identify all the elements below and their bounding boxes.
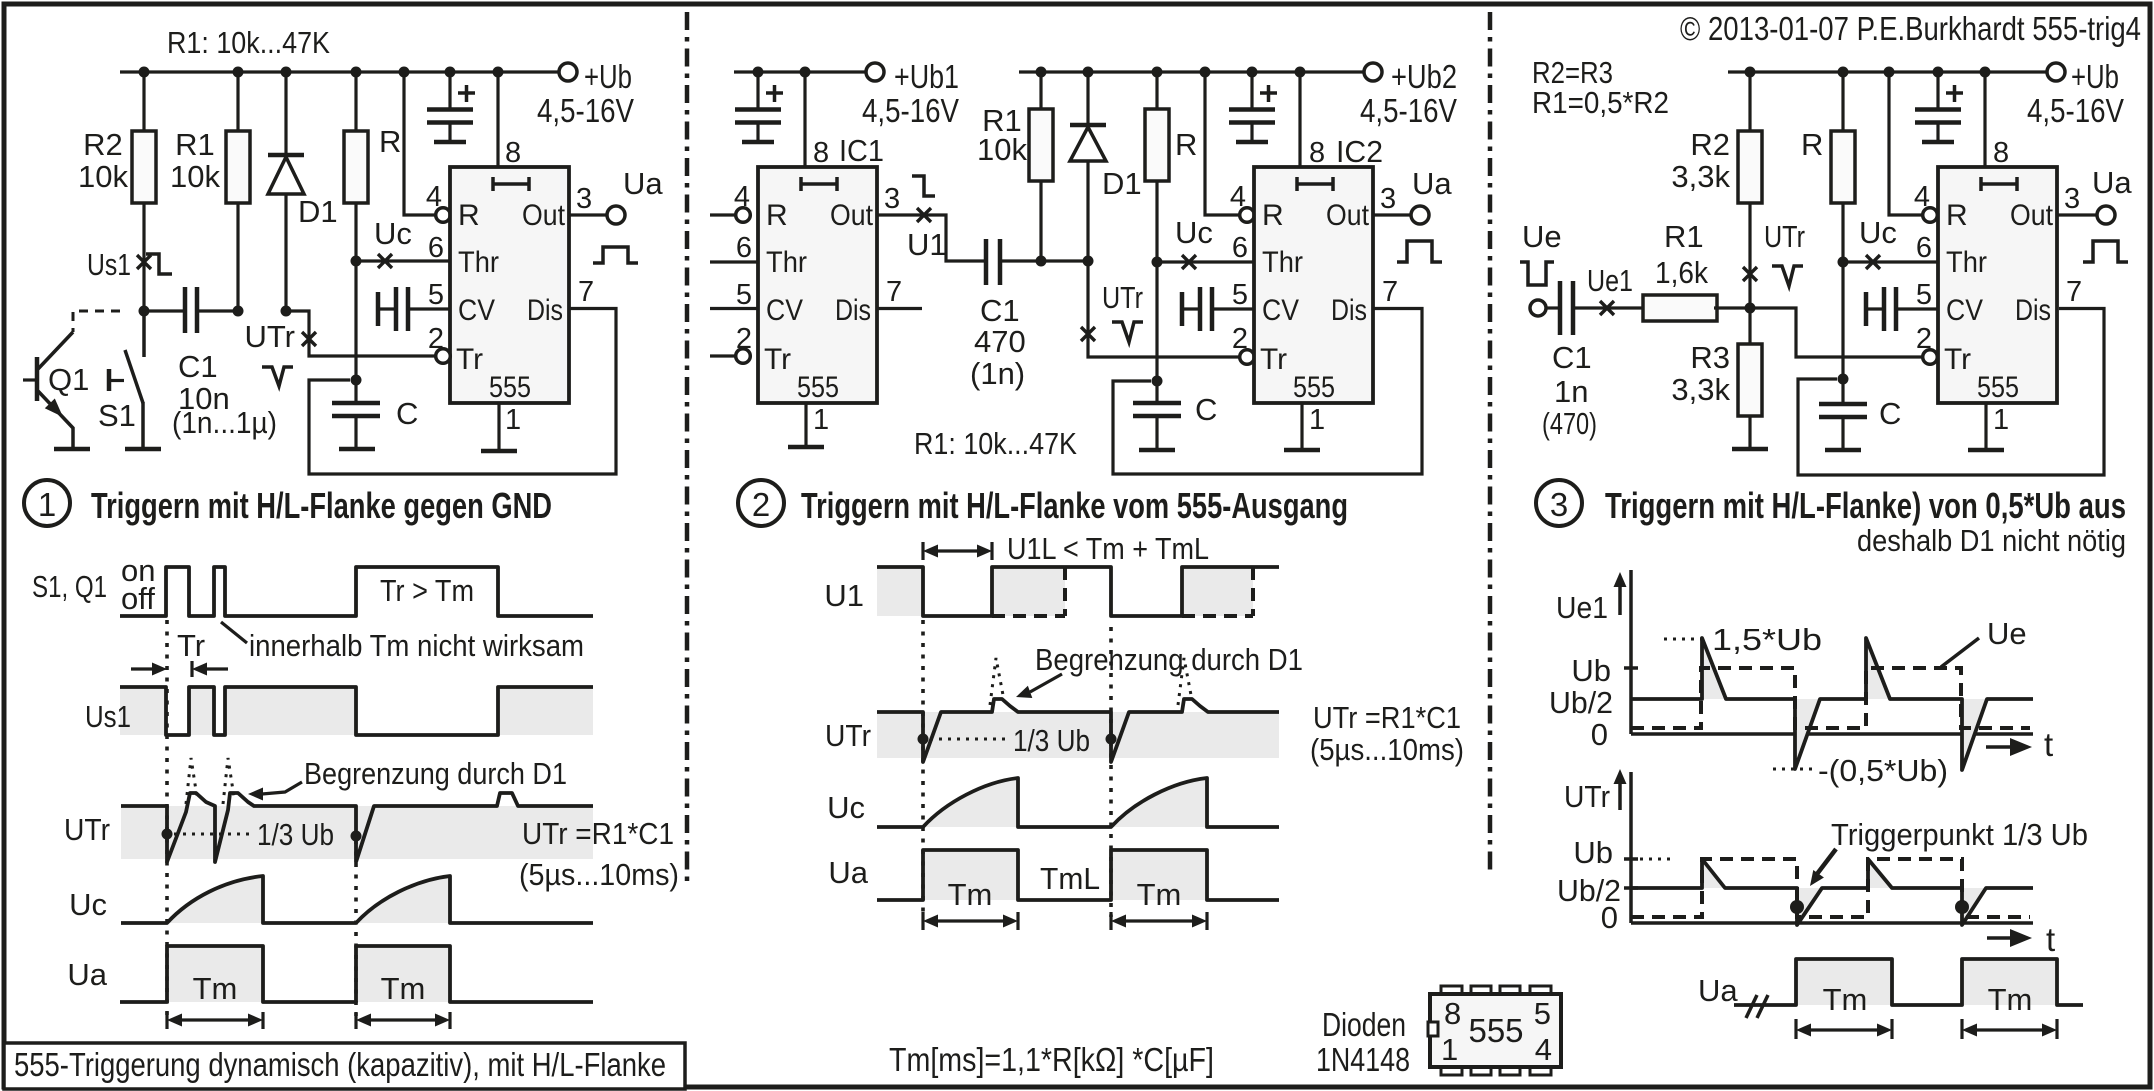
wire pin8: [496, 72, 499, 167]
capacitor bypass IC2: [1229, 72, 1277, 142]
resistor R: [1841, 72, 1844, 131]
svg-text:t: t: [2044, 726, 2053, 763]
shading U1: [877, 567, 1253, 616]
svg-text:Ub/2: Ub/2: [1549, 685, 1613, 720]
terminal Ue: [1530, 300, 1546, 316]
terminal +Ub: [2047, 63, 2065, 81]
pins top: [1441, 986, 1462, 995]
wire pin1 ground: [1984, 403, 1987, 450]
dim arrows Tr: [131, 667, 155, 670]
trace Uc: [121, 876, 593, 923]
pulse icon: [2083, 241, 2128, 262]
wire Dis loop IC2: [1113, 309, 1422, 475]
svg-text:© 2013-01-07 P.E.Burkhardt 555: © 2013-01-07 P.E.Burkhardt 555-trig4: [1680, 10, 2141, 47]
svg-text:UTr: UTr: [1102, 280, 1143, 315]
resistor R: [354, 72, 357, 131]
svg-text:C1: C1: [178, 349, 218, 384]
svg-text:10k: 10k: [977, 132, 1027, 167]
resistor R1: [1039, 72, 1042, 109]
resistor R2: [1748, 72, 1751, 131]
svg-text:Ua: Ua: [623, 166, 663, 201]
diode D1: [1086, 72, 1089, 261]
svg-text:deshalb D1 nicht nötig: deshalb D1 nicht nötig: [1857, 523, 2126, 558]
trace UTr: [121, 793, 593, 862]
capacitor C1: [1546, 306, 1560, 309]
svg-text:Tm: Tm: [193, 971, 238, 1006]
trace Ua: [877, 850, 1279, 900]
svg-text:Uc: Uc: [1175, 215, 1213, 250]
svg-text:Triggern mit H/L-Flanke) von 0: Triggern mit H/L-Flanke) von 0,5*Ub aus: [1605, 485, 2126, 526]
separator dash-dot right: [1488, 12, 1493, 873]
svg-text:C1: C1: [980, 293, 1020, 328]
axis arrow t: [1986, 745, 2010, 749]
wire pin1 IC1 ground: [804, 403, 807, 447]
svg-text:3: 3: [1550, 486, 1568, 523]
svg-text:Tm: Tm: [948, 877, 993, 912]
dotted spike 2: [223, 758, 234, 804]
svg-text:Tm[ms]=1,1*R[kΩ] *C[µF]: Tm[ms]=1,1*R[kΩ] *C[µF]: [889, 1041, 1214, 1078]
caption 2: [738, 480, 784, 526]
wire trigger node to Tr: [286, 311, 436, 356]
separator dash-dot left: [685, 12, 690, 885]
node UTr: [1743, 267, 1757, 281]
wire pin1 IC2 ground: [1300, 403, 1303, 450]
svg-text:C1: C1: [1552, 340, 1592, 375]
svg-text:Tm: Tm: [1988, 982, 2033, 1017]
svg-text:1n: 1n: [1554, 374, 1588, 409]
svg-text:1,5*Ub: 1,5*Ub: [1712, 622, 1822, 657]
svg-text:Ub: Ub: [1571, 653, 1611, 688]
svg-text:+Ub: +Ub: [584, 58, 632, 95]
capacitor C1: [986, 239, 1000, 285]
node trigger dots: [1790, 900, 1804, 914]
pulse icon: [1397, 241, 1442, 262]
dotted spike 1: [186, 758, 197, 804]
svg-text:Uc: Uc: [827, 790, 865, 825]
node UTr: [302, 332, 316, 346]
shading Ua pulses: [923, 850, 1018, 900]
wire Out IC1 to C1: [877, 215, 986, 261]
node Thr junction: [351, 256, 362, 267]
wire +Ub2 rail: [1019, 70, 1364, 73]
wire pin4 IC2: [1205, 72, 1240, 215]
dim arrows Tm2: [1111, 912, 1207, 930]
svg-text:Us1: Us1: [87, 247, 131, 282]
svg-text:Dioden: Dioden: [1322, 1006, 1406, 1043]
dim arrow U1L: [923, 542, 992, 560]
svg-text:UTr: UTr: [1764, 219, 1805, 254]
svg-text:(5µs...10ms): (5µs...10ms): [519, 857, 679, 892]
dotted trigger line 1: [921, 620, 925, 917]
svg-text:C: C: [396, 396, 418, 431]
svg-text:Tm: Tm: [381, 971, 426, 1006]
dashed Ue square 2: [1631, 859, 2030, 917]
svg-text:Tr: Tr: [177, 628, 205, 663]
svg-text:Tm: Tm: [1823, 982, 1868, 1017]
trace Ua: [120, 946, 593, 1002]
svg-text:4,5-16V: 4,5-16V: [537, 92, 634, 129]
svg-text:Ub: Ub: [1573, 835, 1613, 870]
dotted 1/3Ub line: [930, 738, 1005, 741]
svg-text:(1n): (1n): [970, 356, 1025, 391]
svg-text:Q1: Q1: [48, 362, 89, 397]
svg-text:8: 8: [1444, 996, 1461, 1031]
svg-text:Tr > Tm: Tr > Tm: [380, 573, 474, 608]
dotted trigger line 2: [354, 840, 358, 1016]
svg-text:R: R: [379, 124, 401, 159]
svg-text:(470): (470): [1542, 406, 1597, 441]
terminal +Ub: [559, 63, 577, 81]
shading Uc ramps: [167, 876, 450, 923]
timer IC 555: [426, 137, 594, 436]
svg-text:R1: 10k...47K: R1: 10k...47K: [914, 426, 1077, 461]
break symbol: [1746, 995, 1768, 1018]
transistor Q1: [73, 311, 120, 332]
svg-text:Uc: Uc: [69, 887, 107, 922]
caption 1: [24, 480, 70, 526]
svg-text:D1: D1: [1102, 166, 1142, 201]
svg-text:3,3k: 3,3k: [1671, 372, 1730, 407]
svg-text:1N4148: 1N4148: [1316, 1041, 1410, 1078]
capacitor C: [1819, 404, 1867, 417]
svg-text:Tm: Tm: [1137, 877, 1182, 912]
svg-text:off: off: [121, 581, 155, 616]
plot Ue1 axis: [1618, 584, 1622, 615]
node Uc: [378, 254, 392, 268]
resistor R: [1155, 72, 1158, 109]
svg-text:TmL: TmL: [1040, 861, 1100, 896]
axis arrow t 2: [1987, 936, 2012, 940]
svg-text:UTr: UTr: [64, 812, 110, 847]
shading UTr spikes: [1702, 859, 1986, 925]
svg-text:IC2: IC2: [1336, 134, 1383, 169]
resistor R2: [142, 72, 145, 131]
wire Out IC2: [1374, 213, 1411, 216]
svg-text:Begrenzung durch D1: Begrenzung durch D1: [304, 756, 567, 791]
svg-text:t: t: [2046, 921, 2055, 958]
svg-text:R1: 10k...47K: R1: 10k...47K: [167, 25, 330, 60]
wire Out: [570, 213, 607, 216]
shading Ua pulses: [1796, 959, 1892, 1005]
shading Us1: [120, 687, 593, 735]
svg-text:Uc: Uc: [374, 216, 412, 251]
svg-text:IC1: IC1: [839, 133, 884, 168]
svg-text:UTr =R1*C1: UTr =R1*C1: [1313, 700, 1461, 735]
capacitor bypass IC1: [735, 72, 783, 142]
trace UTr: [877, 699, 1279, 762]
svg-text:2: 2: [752, 486, 770, 523]
svg-text:UTr: UTr: [1564, 779, 1610, 814]
svg-text:+Ub1: +Ub1: [894, 58, 959, 95]
svg-text:+Ub: +Ub: [2071, 58, 2119, 95]
svg-text:R1: R1: [1664, 219, 1704, 254]
dotted trigger line 2: [1109, 627, 1113, 917]
wire Thr: [1843, 260, 1938, 263]
svg-text:Ue1: Ue1: [1556, 590, 1608, 625]
dashed Ue square: [1631, 668, 2030, 728]
dotted trigger line 1: [165, 620, 169, 1016]
wire pin4: [404, 72, 436, 215]
svg-text:S1: S1: [98, 398, 136, 433]
capacitor C: [1133, 403, 1181, 416]
svg-text:(5µs...10ms): (5µs...10ms): [1310, 732, 1464, 767]
shading Uc ramps: [923, 778, 1207, 827]
wire pin1 ground: [497, 403, 500, 451]
node C junction: [351, 375, 362, 386]
svg-text:S1, Q1: S1, Q1: [32, 569, 107, 604]
svg-text:U1: U1: [907, 227, 947, 262]
svg-text:Ue1: Ue1: [1587, 263, 1633, 298]
svg-text:0: 0: [1591, 717, 1608, 752]
svg-text:U1: U1: [824, 578, 864, 613]
svg-text:Ue: Ue: [1522, 219, 1562, 254]
wire Dis loop: [1798, 309, 2104, 476]
shading Ua pulses: [167, 946, 263, 1002]
terminal Ua: [2097, 206, 2115, 224]
dashed U1 alt: [992, 567, 1253, 616]
svg-text:R1=0,5*R2: R1=0,5*R2: [1532, 85, 1669, 120]
svg-text:UTr =R1*C1: UTr =R1*C1: [522, 816, 674, 851]
svg-text:Ue: Ue: [1987, 616, 2027, 651]
wire node UTr to Tr: [1714, 308, 1923, 357]
svg-text:0: 0: [1601, 900, 1618, 935]
svg-text:Uc: Uc: [1859, 215, 1897, 250]
DIP-8 package 555: [1428, 986, 1561, 1075]
resistor R3: [1748, 308, 1751, 344]
wire Thr: [356, 259, 450, 262]
svg-text:UTr: UTr: [825, 718, 871, 753]
svg-text:3,3k: 3,3k: [1671, 159, 1730, 194]
svg-text:4,5-16V: 4,5-16V: [862, 92, 959, 129]
svg-text:R1: R1: [175, 127, 215, 162]
svg-text:R2: R2: [1690, 127, 1730, 162]
node Us1: [137, 255, 151, 269]
svg-text:R: R: [1801, 127, 1823, 162]
shading UTr band: [877, 712, 1279, 758]
trace UTr: [1631, 859, 2033, 925]
svg-text:555: 555: [1468, 1012, 1523, 1049]
callout innerhalb: [221, 622, 247, 643]
resistor R1: [1643, 295, 1717, 321]
capacitor bypass: [1915, 72, 1963, 142]
dotted 1,5Ub: [1664, 638, 1708, 641]
wire pin8 IC1: [803, 72, 806, 167]
svg-text:U1L < Tm + TmL: U1L < Tm + TmL: [1007, 531, 1209, 566]
terminal Ua: [1411, 206, 1429, 224]
svg-text:Triggern mit H/L-Flanke gegen: Triggern mit H/L-Flanke gegen GND: [91, 485, 552, 526]
capacitor CV: [376, 292, 381, 326]
svg-text:+Ub2: +Ub2: [1391, 58, 1457, 95]
trace Ua: [1734, 959, 2083, 1005]
wire pin8 IC2: [1298, 72, 1301, 167]
dotted spike 1: [990, 658, 1003, 705]
plot UTr axis: [1618, 781, 1622, 810]
svg-text:Begrenzung durch D1: Begrenzung durch D1: [1035, 642, 1303, 677]
label Ue callout: [1941, 638, 1979, 667]
svg-text:555-Triggerung dynamisch (kapa: 555-Triggerung dynamisch (kapazitiv), mi…: [14, 1046, 666, 1083]
timer IC2 555: [1230, 137, 1398, 436]
svg-text:Us1: Us1: [85, 699, 131, 734]
notch pin1 mark: [1428, 1022, 1438, 1036]
diode D1: [284, 72, 287, 311]
svg-text:Ua: Ua: [1698, 973, 1738, 1008]
node trigger dots: [918, 734, 929, 745]
svg-text:Ua: Ua: [1412, 166, 1452, 201]
shading Ue1 spikes: [1702, 638, 1987, 770]
trace Uc: [877, 778, 1279, 827]
node rail junctions: [139, 67, 150, 78]
svg-text:C: C: [1195, 392, 1217, 427]
dotted -(0,5*Ub): [1773, 768, 1812, 771]
svg-text:10k: 10k: [170, 159, 220, 194]
wire +Ub rail: [1728, 70, 2047, 73]
svg-text:1/3 Ub: 1/3 Ub: [1013, 723, 1090, 758]
wire Thr: [1157, 260, 1254, 263]
timer IC 555: [1914, 137, 2082, 436]
trace S1: [120, 567, 593, 616]
captions row: [24, 480, 2126, 558]
capacitor CV: [1864, 292, 1869, 326]
wire R to C: [354, 261, 357, 403]
timer IC1 555: [734, 137, 902, 436]
trace Us1: [120, 687, 593, 735]
svg-text:470: 470: [974, 324, 1026, 359]
dotted 1/3Ub line: [174, 833, 250, 836]
svg-text:Ua: Ua: [828, 855, 868, 890]
svg-text:(1n...1µ): (1n...1µ): [172, 405, 277, 440]
dim arrows Tm2: [356, 1012, 450, 1029]
capacitor CV: [1180, 292, 1185, 326]
resistor R1: [236, 72, 239, 131]
svg-text:1: 1: [38, 486, 56, 523]
caption 3: [1536, 480, 1582, 526]
wire pin4: [1889, 72, 1923, 215]
svg-text:1/3 Ub: 1/3 Ub: [257, 817, 334, 852]
svg-text:1,6k: 1,6k: [1655, 255, 1708, 290]
svg-text:Triggerpunkt 1/3 Ub: Triggerpunkt 1/3 Ub: [1831, 817, 2088, 852]
capacitor bypass: [427, 72, 475, 142]
svg-text:R2: R2: [83, 127, 123, 162]
svg-text:4,5-16V: 4,5-16V: [2027, 92, 2124, 129]
capacitor C1: [144, 309, 185, 312]
svg-text:4: 4: [1535, 1032, 1552, 1067]
pin circle Tr: [436, 349, 451, 364]
dotted spike 2: [1178, 658, 1191, 705]
terminal +Ub2: [1364, 63, 1382, 81]
svg-text:R3: R3: [1690, 340, 1730, 375]
svg-text:C: C: [1879, 396, 1901, 431]
svg-text:Ua: Ua: [2092, 165, 2132, 200]
svg-text:5: 5: [1534, 996, 1551, 1031]
wire +Ub1 rail: [734, 70, 866, 73]
pin stubs IC1: [710, 213, 736, 216]
switch S1: [142, 311, 146, 357]
svg-text:1: 1: [1441, 1032, 1458, 1067]
svg-text:-(0,5*Ub): -(0,5*Ub): [1818, 753, 1948, 788]
wire +Ub rail: [120, 70, 559, 73]
capacitor C: [332, 403, 380, 416]
svg-text:innerhalb Tm nicht wirksam: innerhalb Tm nicht wirksam: [249, 628, 584, 663]
pins bottom: [1441, 1066, 1462, 1075]
svg-text:D1: D1: [298, 194, 338, 229]
package body: [1430, 994, 1561, 1067]
svg-text:4,5-16V: 4,5-16V: [1360, 92, 1457, 129]
dim arrows Tm1: [923, 912, 1018, 930]
shading UTr band: [121, 806, 593, 859]
terminal Ua: [607, 206, 625, 224]
svg-text:UTr: UTr: [245, 319, 296, 354]
svg-text:Ua: Ua: [67, 957, 107, 992]
terminal +Ub1: [866, 63, 884, 81]
dim arrows Tm: [1796, 1019, 1892, 1039]
trace Ue1: [1631, 638, 2033, 770]
wire trigger node to Tr IC2: [1088, 261, 1240, 357]
dim arrows Tm1: [167, 1012, 263, 1029]
svg-text:Triggern mit H/L-Flanke vom 55: Triggern mit H/L-Flanke vom 555-Ausgang: [801, 485, 1348, 526]
node trigger dots: [162, 829, 173, 840]
wire pin8: [1983, 72, 1986, 167]
svg-text:R: R: [1175, 127, 1197, 162]
wire Out: [2058, 213, 2097, 216]
trace U1: [877, 567, 1279, 616]
pulse icon: [593, 247, 638, 263]
wire Dis loop: [309, 309, 616, 475]
bottom caption box: [4, 1043, 685, 1089]
svg-text:10k: 10k: [78, 159, 128, 194]
